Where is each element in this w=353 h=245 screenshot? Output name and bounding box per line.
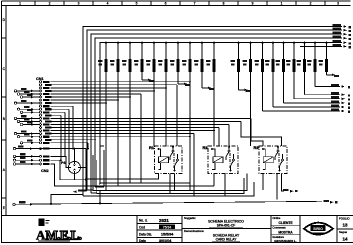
wire output NO — [315, 86, 340, 88]
wire output NC — [305, 94, 341, 96]
connector CN1 pin 1 — [40, 81, 42, 83]
connector CN1 pin 17 — [40, 130, 42, 132]
connector CN1 pin 13 — [40, 117, 42, 119]
svg-text:R3: R3 — [254, 145, 260, 150]
wire R3 bottom — [263, 174, 277, 200]
relay R1 coil wires — [159, 149, 161, 170]
connector CN1 pin 8 — [40, 102, 42, 104]
connector arrow bus 1 — [344, 25, 347, 28]
connector arrow input D2 — [31, 111, 34, 114]
connector arrow bus 2 — [344, 29, 347, 32]
svg-text:3: 3 — [78, 2, 80, 6]
wire input G1 — [23, 142, 39, 144]
wire GND riser x100 — [99, 191, 101, 204]
connector CN1 pin 14 — [40, 120, 42, 122]
wire CN1 pin 10 net — [51, 108, 70, 110]
resistor R7 with wire — [177, 43, 179, 84]
connector CN1 pin 2 — [40, 84, 42, 86]
svg-text:1: 1 — [19, 2, 21, 6]
wire bus line5 bottom — [99, 183, 100, 185]
connector CN1 pin 12 — [40, 114, 42, 116]
title block verticals — [137, 216, 337, 243]
svg-text:SPA-601-CF: SPA-601-CF — [217, 224, 235, 228]
border left ruler ticks — [2, 38, 7, 198]
svg-text:CARD RELAY: CARD RELAY — [216, 238, 238, 242]
title col4 dividers — [271, 225, 300, 234]
connector CN1 pin 16 — [40, 127, 42, 129]
wire CN1 pin 19 net — [51, 136, 191, 138]
svg-text:14: 14 — [342, 237, 348, 242]
node GND mid label — [78, 189, 86, 191]
company logo base ticks — [50, 241, 72, 243]
wire CN1 pin 21 net — [51, 142, 89, 144]
relay R1 box — [155, 146, 183, 174]
connector CN1 pin 10 — [40, 108, 42, 110]
connector arrow input F1 — [31, 123, 34, 126]
resistor R11 with wire — [238, 43, 240, 90]
resistor R9 with wire — [201, 43, 203, 88]
company eye logo — [304, 223, 333, 235]
company logo accent mark — [39, 219, 45, 227]
wire bottom bus 2 — [104, 150, 214, 186]
resistor R12 with wire — [250, 43, 252, 146]
wire bottom bus 1 — [100, 146, 190, 183]
node stub D6 — [327, 74, 333, 76]
svg-text:6: 6 — [165, 2, 167, 6]
border inner frame line left — [5, 6, 7, 216]
wire bottom bus 3 — [93, 155, 247, 191]
connector arrow input C2 — [31, 102, 34, 105]
connector arrow bus 3 — [344, 33, 347, 36]
connector arrow output NC — [342, 93, 345, 96]
wire bus line 3 — [91, 34, 342, 193]
svg-text:CN2: CN2 — [41, 169, 49, 173]
relay R2 contact 2 — [233, 159, 235, 161]
connector CN2 pin 1 — [40, 155, 42, 157]
wire mesh verticals — [61, 85, 282, 196]
svg-text:2: 2 — [49, 2, 51, 6]
connector CN1 pin 20 — [40, 139, 42, 141]
wire x86 vertical to bottom bus — [85, 149, 87, 191]
wire CN1 pin 16 net — [51, 127, 220, 129]
wire input F1 — [23, 124, 39, 126]
connector CN1 pin 9 — [40, 105, 42, 107]
connector CN1 pin 7 — [40, 99, 42, 101]
relay R1 linkage dashed — [173, 153, 175, 168]
svg-text:2631: 2631 — [159, 218, 169, 223]
svg-text:R1: R1 — [149, 145, 155, 150]
title block outline — [2, 215, 353, 217]
svg-text:2: 2 — [310, 2, 312, 6]
connector arrow input G1 — [31, 142, 34, 145]
wire R3 contact output K3 — [282, 174, 285, 192]
wire input D2 — [23, 111, 39, 113]
wire CN1 pin 12 net — [51, 114, 62, 116]
relay R1 contact 1 — [172, 150, 174, 152]
connector CN1 pin 3 — [40, 87, 42, 89]
wire bus line 4 — [95, 38, 342, 187]
relay R1 contact 2 — [177, 159, 179, 161]
wire input TX — [23, 96, 39, 98]
wire P4 right — [80, 166, 86, 168]
connector arrow output GN1 — [342, 110, 345, 113]
svg-text:Commessa: Commessa — [273, 226, 287, 230]
svg-text:9: 9 — [252, 2, 254, 6]
wire bus line4 bottom — [95, 186, 104, 188]
svg-text:CLIENTE: CLIENTE — [278, 221, 293, 225]
wire CN2 pin1 to P4 left — [51, 156, 69, 167]
resistor R4 with wire — [141, 43, 143, 80]
wire bus line3 bottom — [91, 192, 97, 194]
svg-text:M.E.L.: M.E.L. — [46, 228, 82, 243]
wire R1 bottom left — [86, 174, 159, 179]
relay R1 coil — [159, 157, 169, 163]
wire CN1 pin 20 net — [51, 139, 96, 141]
wire CN2 input SH — [16, 163, 39, 165]
wire bottom bus 4 — [97, 160, 244, 193]
resistor R5 with wire — [153, 43, 155, 146]
svg-text:A: A — [36, 228, 46, 243]
node stub D2 — [178, 83, 184, 85]
connector arrow input F2 — [31, 132, 34, 135]
connector arrow output NO — [342, 85, 345, 88]
connector CN1 pin 19 — [40, 136, 42, 138]
wire GND long — [16, 201, 323, 204]
svg-text:7: 7 — [194, 2, 196, 6]
wire input F2 — [17, 133, 39, 135]
wire output GN1 — [263, 110, 341, 112]
resistor R14 with wire — [272, 43, 274, 107]
svg-text:1: 1 — [281, 2, 283, 6]
wire bus line 2 — [87, 30, 342, 190]
wire output GN2 — [273, 106, 340, 108]
connector GND left — [13, 203, 15, 205]
wire bus line 1 — [83, 27, 342, 197]
title col3 divider — [182, 228, 271, 230]
svg-text:Data Dis.: Data Dis. — [139, 232, 152, 236]
node stub D1 — [142, 79, 148, 81]
wire input E2 — [20, 120, 39, 122]
resistor R16 with wire — [293, 43, 295, 99]
relay R3 linkage dashed — [278, 153, 280, 168]
svg-text:R2: R2 — [203, 145, 209, 150]
connector arrow input TX — [31, 96, 34, 99]
relay R3 contact 1 — [277, 150, 279, 152]
wire CN2 pin3 to bus — [51, 164, 105, 186]
connector arrow line 6 — [344, 45, 347, 48]
resistor R18 with wire — [314, 43, 316, 87]
wire CN2 pin2 down — [51, 160, 61, 180]
wire output SA1 — [284, 102, 341, 104]
connector arrow input E1 — [31, 117, 34, 120]
connector arrow bus 5 — [344, 41, 347, 44]
relay R2 coil — [213, 157, 223, 163]
svg-text:75/34: 75/34 — [163, 226, 172, 230]
svg-text:Ordine: Ordine — [273, 216, 281, 220]
svg-text:MOSTRA: MOSTRA — [278, 231, 293, 235]
connector CN1 pin 18 — [40, 133, 42, 135]
wire CN1 pin 4 net — [51, 90, 155, 92]
wire CN1 pin 15 net — [51, 124, 230, 126]
connector arrow input F3 — [31, 135, 34, 138]
resistor R6 with wire — [165, 43, 167, 146]
resistor R19 with wire — [326, 43, 328, 75]
resistor R10 with wire — [213, 43, 215, 146]
svg-text:SIRIO: SIRIO — [313, 227, 323, 231]
wire input F3 — [20, 136, 39, 138]
svg-text:Data: Data — [139, 239, 146, 243]
node stub D4 — [239, 89, 245, 91]
relay R3 coil — [263, 157, 273, 163]
wire CN1 pin 5 net — [51, 93, 142, 95]
connector arrow input A1 — [31, 90, 34, 93]
connector arrow output SA2 — [342, 98, 345, 101]
wire CN1 pin 6 net — [51, 96, 131, 98]
svg-text:CN1: CN1 — [36, 77, 44, 81]
svg-text:Cod: Cod — [139, 226, 145, 230]
wire CN2 input M- — [16, 159, 39, 161]
wire CN2 input M+ — [16, 155, 39, 157]
resistor R13 with wire — [262, 43, 264, 111]
connector CN2 pin 3 — [40, 163, 42, 165]
svg-text:FOGLIO: FOGLIO — [339, 217, 350, 221]
resistor R2 with wire — [117, 43, 119, 186]
connector CN1 pin 5 — [40, 93, 42, 95]
connector GND right — [324, 200, 329, 202]
svg-text:3: 3 — [337, 2, 339, 6]
connector arrow input D1 — [31, 108, 34, 111]
junction dots mesh — [189, 81, 191, 83]
wire bus line labels right — [333, 24, 342, 26]
svg-text:Segue: Segue — [339, 230, 348, 234]
wire input D1 — [20, 108, 39, 110]
wire CN1 pin 7 net — [51, 99, 119, 101]
wire line 6 right — [300, 45, 342, 47]
border inner frame line top — [2, 5, 351, 7]
connector arrow output SA1 — [342, 102, 345, 105]
resistor R17 with wire — [304, 43, 306, 95]
connector arrow bus 4 — [344, 37, 347, 40]
connector arrow output GN2 — [342, 106, 345, 109]
connector CN1 pin 21 — [40, 142, 42, 144]
svg-text:13: 13 — [342, 223, 348, 228]
relay R2 linkage dashed — [229, 153, 231, 168]
component P4 terminals — [68, 161, 80, 173]
svg-text:Soggetto:: Soggetto: — [184, 216, 196, 220]
node stub D3 — [202, 87, 208, 89]
component P4 circle — [68, 161, 80, 173]
wire bus line2 bottom — [87, 189, 93, 191]
wire input C2 — [17, 102, 39, 104]
wire CN1 pin 9 net — [51, 105, 74, 107]
wire CN1 pin 2 net — [51, 84, 178, 86]
svg-text:15/5/94: 15/5/94 — [161, 233, 174, 237]
connector arrow K3 — [290, 190, 294, 193]
connector CN1 pin 11 — [40, 111, 42, 113]
svg-text:8: 8 — [223, 2, 225, 6]
wire output SA2 — [294, 98, 340, 100]
connector CN2 pin 2 — [40, 159, 42, 161]
border top ruler ticks — [35, 1, 325, 6]
title col6 divider — [337, 228, 353, 230]
svg-text:Denominazione:: Denominazione: — [184, 229, 204, 233]
wire R1 bottom to bus — [170, 174, 175, 194]
wire CN1 pin 14 net — [51, 120, 242, 122]
svg-text:No. d.: No. d. — [139, 219, 148, 223]
wire bottom bus verticals left — [83, 182, 254, 196]
wire row to P4 top — [16, 149, 86, 162]
wire CN1 pin 17 net — [51, 130, 215, 132]
svg-text:3/01/04: 3/01/04 — [159, 239, 172, 243]
relay R2 box — [208, 146, 238, 174]
wire bus line 5 — [100, 43, 342, 184]
wire input B1 — [20, 93, 39, 95]
connector arrow input B1 — [31, 93, 34, 96]
resistor R15 with wire — [283, 43, 285, 103]
wire P4 bottom line — [60, 173, 86, 179]
relay R2 contact 1 — [228, 150, 230, 152]
relay R3 coil wires — [263, 149, 265, 170]
wire CN1 pin 1 net — [51, 81, 191, 83]
relay R3 box — [259, 146, 287, 174]
resistor R8 with wire — [189, 43, 191, 191]
resistor R1 with wire — [105, 43, 107, 191]
svg-text:4: 4 — [107, 2, 109, 6]
relay R2 coil wires — [212, 149, 215, 170]
wire CN1 pin 8 net — [51, 102, 107, 104]
wire CN1 pin 18 net — [51, 133, 195, 135]
connector CN1 pin 6 — [40, 96, 42, 98]
connector arrow input E2 — [31, 120, 34, 123]
connector CN1 pin 15 — [40, 124, 42, 126]
wire CN1 pin 3 net — [51, 87, 167, 89]
wire CN1 pin 11 net — [51, 111, 66, 113]
title col2 row lines — [137, 224, 182, 238]
svg-text:5: 5 — [136, 2, 138, 6]
wire R2 bottom — [214, 174, 225, 197]
wire input E1 — [17, 117, 39, 119]
svg-text:P4: P4 — [61, 161, 65, 165]
wire CN1 pin 13 net — [51, 117, 252, 119]
connector CN1 pin 4 — [40, 90, 42, 92]
relay R3 contact 2 — [282, 159, 284, 161]
svg-text:GIOVANARDI L.: GIOVANARDI L. — [274, 239, 297, 243]
wire input A1 — [17, 90, 39, 92]
resistor R3 with wire — [129, 43, 131, 183]
wire corner x51 up — [51, 195, 83, 204]
